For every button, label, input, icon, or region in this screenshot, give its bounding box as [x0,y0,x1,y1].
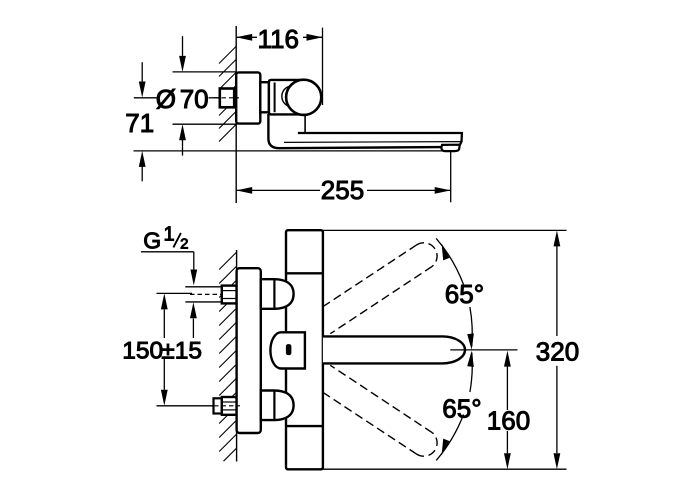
sensor cap circle [286,80,321,115]
sensor window [286,344,292,355]
spout (plan, solid) [323,336,465,363]
body column [286,230,323,469]
G 1/2 leader [141,251,194,253]
lower inlet center line [214,405,240,407]
dim 71 top arrow [141,62,143,82]
spout body lower outline [268,114,441,148]
mounting plate [237,268,261,433]
svg-text:320: 320 [536,336,579,366]
dim 160 top arrow [504,351,511,367]
dim 160 bottom arrow [504,453,511,469]
upper 65 arc [436,238,463,284]
body inner line [274,83,276,113]
lower 65 arc [470,353,472,393]
valve body housing [269,80,304,115]
wall hatching (bottom view) [219,252,236,461]
escutcheon (wall rosette) [236,72,260,123]
inlet square union (top view) [220,89,234,108]
lower 65 arc top arrowhead [467,351,474,367]
dim 255 right arrow [435,187,451,194]
swivel spout -65 (dashed capsule lower) [323,365,437,456]
dim 116: dimension line [236,36,257,38]
spout axis center line [450,349,517,351]
dim D70 leader line [134,97,157,99]
svg-text:1: 1 [164,224,175,246]
dim 150 dimension line [163,310,165,339]
bottom reference line [323,468,567,470]
wall hatching (top view) [219,47,236,142]
upper 65 arc top arrowhead [442,244,450,261]
dim 320 top reference line [321,229,567,231]
svg-text:Ø: Ø [156,84,176,114]
svg-text:2: 2 [180,236,188,253]
svg-text:65°: 65° [445,279,484,309]
body cone arc [282,86,291,106]
spout joint line [304,115,306,133]
dim 150+-15 extension line bottom [157,405,215,407]
dim 71 bottom arrow [141,167,143,182]
top S-union [261,279,294,309]
G 1/2 fraction slash [173,233,181,248]
swivel spout +65 (dashed capsule upper) [323,243,437,334]
dim 116 right extension line [322,28,324,105]
lower 65 arc bottom arrowhead [442,439,450,456]
wall face line (bottom view) [236,250,238,462]
spout top edge and tip [298,133,462,145]
dim 255 dimension line [236,189,320,191]
dim 255: extension line right [450,151,452,202]
connector ring [260,82,269,112]
svg-text:±15: ±15 [161,337,202,364]
thread arc right of square [234,93,237,102]
dim +-15 arrow [192,318,194,338]
dim 320 dimension line [556,246,558,336]
dim 255 left arrow [236,187,252,194]
lower union nut [222,397,237,415]
svg-text:71: 71 [125,108,154,138]
svg-text:255: 255 [321,175,364,205]
dim 160 dimension line [506,366,508,410]
dim 320 bottom arrow [554,453,561,469]
dim D70 top reference line [173,71,237,73]
dim 150 top arrow [161,293,168,309]
inlet center line (dash-dot) [214,97,239,99]
dim D70 top arrow [182,36,184,56]
dim D70 bottom reference line [173,123,237,125]
dim 150 bottom arrow [161,390,168,406]
dim D70 bottom arrow [182,140,184,156]
bottom S-union [261,391,294,421]
supply pipe (top inlet) [185,286,222,288]
dim 116 right arrow [307,34,323,41]
dim 320 top arrow [554,230,561,246]
svg-text:160: 160 [487,406,530,436]
aerator [441,145,459,151]
dim 150+-15 extension line top [157,292,193,294]
svg-text:G: G [143,228,161,254]
svg-text:150: 150 [122,337,163,364]
lower supply pipe stub [214,398,222,413]
wall face line (top view, also 116/255 left extension) [235,26,237,203]
svg-text:116: 116 [258,24,299,54]
top union nut [222,286,237,304]
sensor housing dome [270,332,305,368]
dim 116 left arrow [236,34,252,41]
spout underside silhouette line [284,141,461,144]
svg-text:70: 70 [180,84,209,114]
svg-text:65°: 65° [442,394,481,424]
dim 71 bottom reference line [134,150,451,152]
top inlet center line [190,293,240,295]
column top cap separator [286,272,323,274]
column bottom cap separator [286,425,323,427]
upper 65 arc bottom arrowhead [467,333,474,350]
